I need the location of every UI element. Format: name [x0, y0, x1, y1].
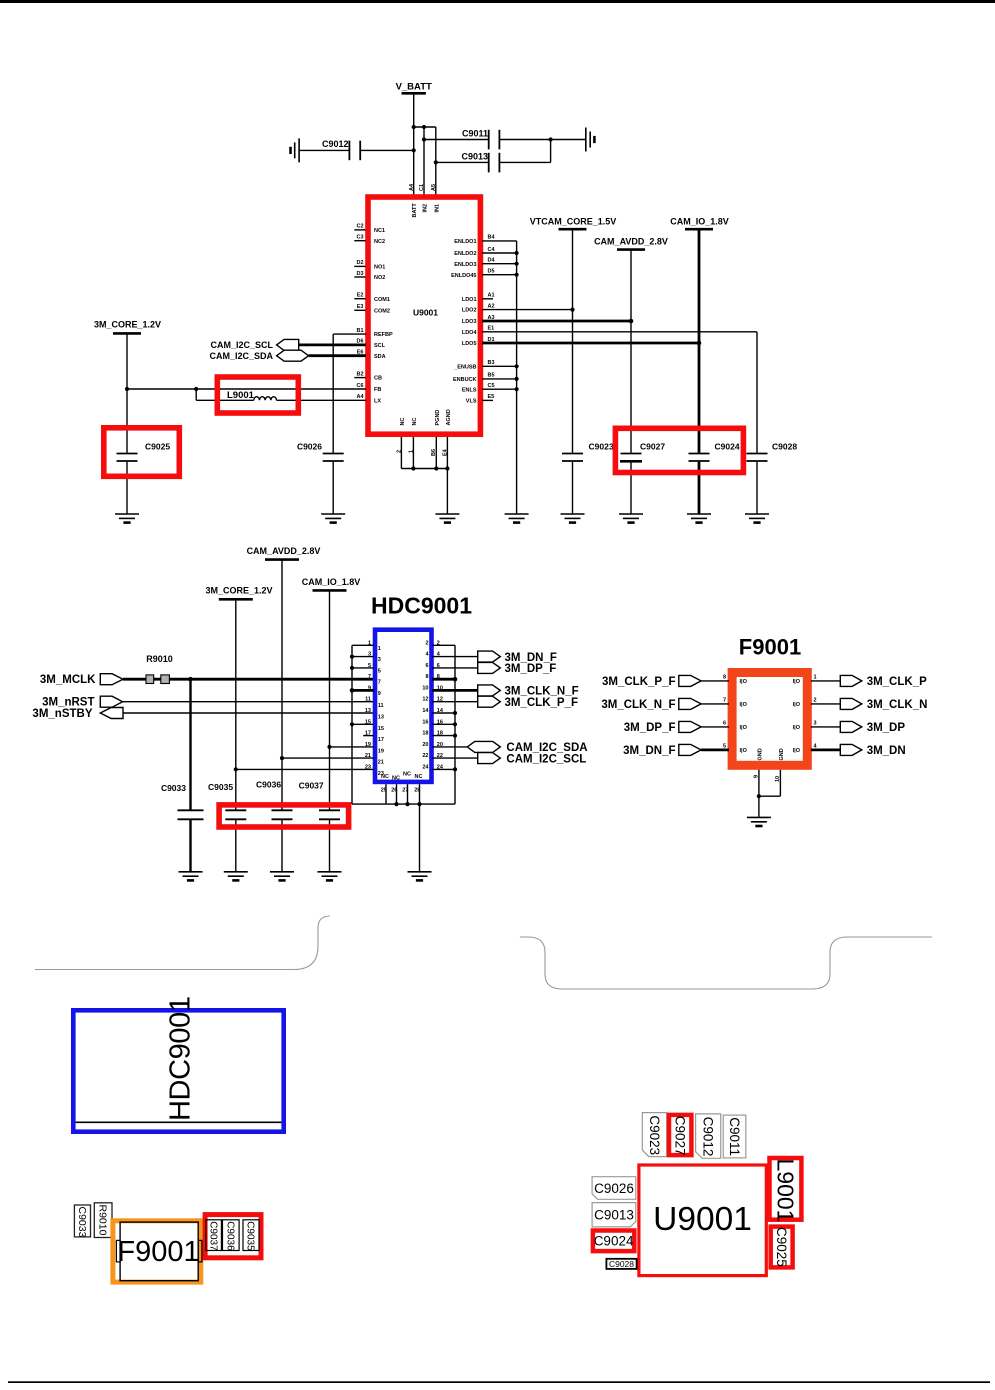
capacitor C9037 — [299, 780, 340, 872]
svg-text:C9033: C9033 — [161, 783, 186, 793]
svg-text:21: 21 — [365, 753, 371, 759]
node junction dots V_BATT area — [412, 125, 416, 129]
svg-text:PGND: PGND — [435, 410, 441, 426]
wire _ENUSB — [482, 365, 517, 367]
wire CAM_AVDD vertical — [281, 560, 283, 810]
svg-text:I|O: I|O — [793, 748, 801, 754]
svg-text:2: 2 — [437, 640, 440, 646]
svg-text:8: 8 — [437, 674, 440, 680]
bottom NC pin wires — [386, 784, 420, 872]
svg-text:3M_DP_F: 3M_DP_F — [505, 663, 557, 675]
svg-text:E2: E2 — [357, 293, 364, 299]
svg-text:HDC9001: HDC9001 — [371, 593, 472, 619]
svg-text:LDO5: LDO5 — [462, 341, 477, 347]
wire ENLDO1 to enable bus — [482, 240, 517, 242]
svg-text:CAM_AVDD_2.8V: CAM_AVDD_2.8V — [247, 546, 321, 556]
svg-text:NC: NC — [400, 418, 406, 426]
capacitor C9033 — [161, 679, 204, 872]
svg-text:C9024: C9024 — [594, 1234, 634, 1249]
svg-text:V_BATT: V_BATT — [396, 82, 432, 93]
svg-text:C1: C1 — [419, 184, 425, 191]
power flag CAM_IO_1.8V (middle) — [302, 577, 361, 590]
svg-text:NO1: NO1 — [374, 265, 385, 271]
svg-text:24: 24 — [422, 764, 429, 770]
svg-text:C6: C6 — [356, 383, 363, 389]
footprint label C9011 — [723, 1115, 746, 1158]
svg-text:C9027: C9027 — [640, 441, 665, 451]
footprint label C9012 — [696, 1114, 721, 1158]
left bus junction dots — [350, 655, 354, 659]
footprint U9001 (red box) — [639, 1165, 766, 1276]
svg-text:C9023: C9023 — [647, 1115, 662, 1155]
svg-text:ENLDO2: ENLDO2 — [454, 251, 476, 257]
svg-text:3M_CORE_1.2V: 3M_CORE_1.2V — [205, 586, 272, 596]
svg-text:L9001: L9001 — [227, 390, 255, 401]
svg-text:3M_CLK_P_F: 3M_CLK_P_F — [602, 676, 676, 688]
wire 3M_CORE down through FB node — [126, 333, 128, 452]
svg-text:CAM_I2C_SDA: CAM_I2C_SDA — [506, 742, 587, 754]
page top border line — [0, 0, 995, 3]
svg-text:NC: NC — [392, 776, 400, 782]
inductor L9001 — [196, 389, 366, 401]
svg-text:8: 8 — [425, 674, 428, 680]
F9001 left pin numbers 8 7 6 5 — [723, 675, 726, 750]
svg-text:9: 9 — [378, 691, 381, 697]
right pin wires HDC9001 — [432, 645, 478, 769]
svg-text:A2: A2 — [488, 303, 495, 309]
svg-text:3M_CLK_P_F: 3M_CLK_P_F — [505, 697, 579, 709]
svg-text:17: 17 — [365, 731, 371, 737]
svg-text:12: 12 — [422, 697, 428, 703]
power flag VTCAM_CORE_1.5V — [530, 216, 617, 229]
svg-text:10: 10 — [437, 685, 443, 691]
left pin numbers inside — [378, 646, 384, 777]
svg-text:C5: C5 — [488, 383, 495, 389]
footprint F9001 (orange box) — [113, 1221, 201, 1282]
svg-text:D5: D5 — [488, 269, 495, 275]
svg-text:1: 1 — [814, 675, 817, 681]
svg-text:3: 3 — [368, 652, 371, 658]
svg-text:I|O: I|O — [740, 702, 748, 708]
filter F9001 body (orange-red box) — [732, 673, 807, 766]
svg-text:L9001: L9001 — [773, 1159, 799, 1223]
footprint F9001 outline — [120, 1222, 198, 1281]
svg-text:C9036: C9036 — [224, 1221, 235, 1251]
svg-text:3M_CORE_1.2V: 3M_CORE_1.2V — [94, 319, 161, 329]
wire 3M_MCLK to pin 7 — [123, 678, 374, 681]
power flag CAM_AVDD_2.8V — [594, 237, 668, 250]
svg-text:21: 21 — [378, 760, 384, 766]
svg-text:7: 7 — [723, 698, 726, 704]
svg-text:ENLDO1: ENLDO1 — [454, 239, 476, 245]
footprint HDC9001 (blue box) — [73, 1010, 283, 1131]
right bus junction dots — [453, 677, 458, 682]
svg-text:23: 23 — [365, 764, 371, 770]
wire ENLS — [482, 388, 517, 390]
svg-text:NC: NC — [412, 418, 418, 426]
svg-text:14: 14 — [422, 708, 429, 714]
net port 3M_DN_F — [478, 651, 501, 662]
capacitor C9011 — [424, 129, 586, 150]
left pin wires HDC9001 — [236, 645, 374, 769]
svg-text:ENLS: ENLS — [462, 387, 477, 393]
svg-text:7: 7 — [378, 680, 381, 686]
right pin numbers inside — [422, 640, 429, 770]
svg-text:5: 5 — [378, 668, 381, 674]
svg-text:VLS: VLS — [466, 399, 477, 405]
svg-text:HDC9001: HDC9001 — [164, 996, 196, 1121]
svg-text:C4: C4 — [488, 247, 496, 253]
footprint highlight C9024 (red box) — [593, 1231, 634, 1252]
svg-text:17: 17 — [378, 737, 384, 743]
svg-text:15: 15 — [365, 719, 371, 725]
svg-text:6: 6 — [437, 663, 440, 669]
capacitor C9028 — [747, 332, 798, 514]
F9001 right pin names — [793, 679, 801, 754]
svg-text:C9028: C9028 — [772, 441, 797, 451]
svg-text:12: 12 — [437, 697, 443, 703]
capacitor C9012 — [299, 139, 414, 160]
ground under HDC9001 — [408, 872, 432, 881]
svg-text:20: 20 — [422, 742, 428, 748]
svg-text:C9013: C9013 — [594, 1208, 634, 1223]
footprint highlight box C9035 C9036 C9037 (red) — [205, 1215, 261, 1258]
ground under U9001 AGND — [435, 514, 459, 523]
svg-text:C9025: C9025 — [145, 441, 170, 451]
highlight box around C9025 — [104, 428, 180, 477]
footprint highlight C9027 (red box) — [669, 1115, 691, 1155]
svg-text:NC1: NC1 — [374, 228, 385, 234]
power flag 3M_CORE_1.2V (middle) — [205, 586, 272, 600]
svg-text:IN1: IN1 — [434, 204, 440, 213]
svg-text:B2: B2 — [356, 371, 363, 377]
svg-text:15: 15 — [378, 726, 384, 732]
svg-text:BATT: BATT — [412, 203, 418, 218]
svg-text:A5: A5 — [431, 184, 437, 191]
pin 10 thick wire — [432, 689, 478, 692]
wire IN1 pin A5 — [435, 127, 437, 195]
svg-text:C9028: C9028 — [609, 1259, 634, 1269]
svg-text:ENBUCK: ENBUCK — [453, 377, 477, 383]
svg-text:LDO3: LDO3 — [462, 319, 477, 325]
svg-text:CAM_I2C_SCL: CAM_I2C_SCL — [210, 340, 273, 350]
wire 3M_nSTBY to pin 13 — [123, 712, 374, 714]
svg-text:ENLDO3: ENLDO3 — [454, 262, 476, 268]
wire top bus y=127 — [414, 126, 436, 128]
capacitor C9027 — [620, 250, 665, 514]
svg-text:D4: D4 — [488, 258, 496, 264]
svg-text:3M_CLK_P: 3M_CLK_P — [867, 676, 927, 688]
bottom bus horizontal — [352, 803, 455, 805]
svg-text:3M_DP_F: 3M_DP_F — [624, 722, 676, 734]
net port 3M_DP_F — [478, 662, 501, 673]
svg-text:13: 13 — [378, 715, 384, 721]
footprint label C9037 — [206, 1220, 222, 1251]
svg-text:IN2: IN2 — [423, 204, 429, 213]
svg-text:3M_CLK_N_F: 3M_CLK_N_F — [505, 686, 579, 698]
footprint label R9010 — [94, 1203, 112, 1238]
wire REFBP to C9026 — [333, 333, 366, 335]
svg-text:SCL: SCL — [374, 343, 386, 349]
net port 3M_CLK_P — [811, 680, 841, 682]
resistor R9010 — [146, 654, 173, 684]
svg-text:3M_nRST: 3M_nRST — [42, 696, 94, 708]
svg-text:AGND: AGND — [446, 409, 452, 425]
ground under enable bus — [505, 514, 529, 523]
net port CAM_I2C_SDA (middle) — [467, 741, 500, 752]
svg-text:VTCAM_CORE_1.5V: VTCAM_CORE_1.5V — [530, 216, 617, 226]
wire 3M_CORE vertical — [235, 599, 237, 810]
left pin numbers U9001 — [356, 224, 364, 400]
svg-text:3M_CLK_N: 3M_CLK_N — [867, 699, 928, 711]
svg-text:7: 7 — [368, 674, 371, 680]
svg-text:LDO2: LDO2 — [462, 308, 477, 314]
svg-text:16: 16 — [437, 719, 443, 725]
power taps junction dots — [327, 745, 331, 749]
right bus vertical — [454, 645, 456, 804]
svg-text:5: 5 — [723, 744, 726, 750]
svg-text:C9037: C9037 — [207, 1221, 218, 1251]
svg-text:14: 14 — [437, 708, 444, 714]
svg-text:C9013: C9013 — [461, 151, 488, 161]
capacitor C9023 — [562, 229, 614, 514]
footprint HDC9001 inner line — [76, 1121, 282, 1123]
svg-text:U9001: U9001 — [653, 1201, 752, 1238]
highlight box around C9027 C9024 — [615, 428, 743, 472]
svg-text:E3: E3 — [357, 304, 364, 310]
pin 9 thick stub — [352, 689, 374, 692]
svg-text:U9001: U9001 — [413, 308, 438, 318]
footprint label C9033 — [74, 1205, 90, 1238]
footprint label C9026 — [592, 1177, 636, 1200]
svg-text:I|O: I|O — [793, 679, 801, 685]
svg-text:FB: FB — [374, 387, 381, 393]
svg-text:CAM_IO_1.8V: CAM_IO_1.8V — [302, 577, 361, 587]
svg-text:C9024: C9024 — [715, 441, 740, 451]
svg-text:6: 6 — [425, 663, 428, 669]
page bottom border line — [8, 1381, 990, 1383]
wire IN2 pin C1 — [423, 127, 425, 195]
svg-text:3M_DP: 3M_DP — [867, 722, 906, 734]
svg-text:B3: B3 — [488, 360, 495, 366]
capacitor C9024 — [689, 229, 740, 514]
svg-text:ENLDO45: ENLDO45 — [451, 273, 476, 279]
wire ENLDO45 — [482, 274, 517, 276]
svg-text:C9027: C9027 — [673, 1116, 688, 1156]
board outline curve right — [520, 937, 932, 989]
svg-text:NC: NC — [403, 772, 411, 778]
net port 3M_CLK_N_F — [478, 685, 501, 696]
svg-text:D2: D2 — [356, 260, 363, 266]
svg-text:11: 11 — [378, 703, 384, 709]
svg-text:3: 3 — [814, 721, 817, 727]
wire SDA — [309, 354, 366, 357]
svg-text:LDO4: LDO4 — [462, 330, 478, 336]
svg-text:NC: NC — [381, 774, 389, 780]
wire LDO5 to CAM_IO — [482, 342, 699, 345]
svg-text:24: 24 — [437, 764, 444, 770]
board outline curve left — [35, 916, 330, 970]
left pin numbers outside — [365, 640, 371, 770]
svg-text:18: 18 — [422, 731, 428, 737]
svg-text:E5: E5 — [488, 394, 495, 400]
svg-text:A4: A4 — [409, 183, 415, 191]
svg-text:GND: GND — [779, 748, 785, 760]
wire LDO2 to VTCAM — [482, 309, 573, 311]
svg-text:3M_MCLK: 3M_MCLK — [40, 674, 96, 686]
bottom NC pin names — [381, 772, 422, 782]
svg-text:5: 5 — [368, 663, 371, 669]
F9001 left pin names — [740, 679, 748, 754]
svg-text:CB: CB — [374, 376, 382, 382]
footprint label C9036 — [223, 1220, 240, 1251]
svg-text:LX: LX — [374, 398, 381, 404]
svg-text:13: 13 — [365, 708, 371, 714]
svg-text:NC2: NC2 — [374, 239, 385, 245]
svg-text:19: 19 — [365, 742, 371, 748]
svg-text:COM2: COM2 — [374, 308, 390, 314]
svg-text:CAM_I2C_SDA: CAM_I2C_SDA — [209, 351, 273, 361]
stub VLS — [482, 399, 493, 401]
ground under F9001 — [747, 817, 771, 826]
right pin names U9001 — [451, 239, 477, 405]
svg-text:CAM_IO_1.8V: CAM_IO_1.8V — [670, 216, 729, 226]
svg-text:I|O: I|O — [740, 679, 748, 685]
wire V_BATT to BATT pin A4 — [413, 93, 415, 194]
capacitor C9013 — [436, 137, 553, 172]
svg-text:COM1: COM1 — [374, 297, 390, 303]
wire FB — [127, 388, 366, 390]
svg-text:I|O: I|O — [740, 725, 748, 731]
svg-text:CAM_I2C_SCL: CAM_I2C_SCL — [506, 753, 586, 765]
enable bus vertical — [516, 241, 518, 514]
svg-text:16: 16 — [422, 719, 428, 725]
U9001 bottom pin wires — [401, 437, 447, 514]
svg-text:C9037: C9037 — [299, 780, 324, 790]
svg-text:F9001: F9001 — [117, 1236, 199, 1268]
svg-text:22: 22 — [437, 753, 443, 759]
svg-text:C9033: C9033 — [76, 1207, 88, 1238]
svg-text:10: 10 — [422, 685, 428, 691]
pin 8 thick stub — [432, 678, 455, 681]
wire ENLDO2 — [482, 252, 517, 254]
svg-text:C9026: C9026 — [594, 1181, 634, 1196]
svg-text:1: 1 — [378, 646, 381, 652]
right pin numbers outside — [437, 640, 444, 770]
svg-text:C9026: C9026 — [297, 441, 322, 451]
svg-text:D3: D3 — [356, 271, 363, 277]
svg-text:R9010: R9010 — [146, 654, 173, 664]
svg-text:8: 8 — [723, 675, 726, 681]
stub LDO1 — [482, 298, 493, 300]
wire 3M_nRST to pin 11 — [123, 701, 374, 703]
footprint label C9023 — [642, 1113, 666, 1157]
svg-text:NO2: NO2 — [374, 275, 385, 281]
svg-text:NC: NC — [415, 774, 423, 780]
ground left of C9012 — [291, 138, 300, 162]
svg-text:9: 9 — [368, 685, 371, 691]
svg-text:C9025: C9025 — [774, 1227, 789, 1267]
svg-text:B5: B5 — [488, 373, 495, 379]
svg-text:REFBP: REFBP — [374, 332, 393, 338]
footprint label C9035 — [243, 1220, 259, 1251]
svg-text:18: 18 — [437, 731, 443, 737]
power flag CAM_IO_1.8V — [670, 216, 729, 229]
ground under C9025 — [115, 514, 139, 523]
svg-text:3M_DN: 3M_DN — [867, 745, 906, 757]
svg-text:GND: GND — [757, 748, 763, 760]
svg-text:I|O: I|O — [793, 725, 801, 731]
svg-text:C9035: C9035 — [208, 782, 233, 792]
svg-text:1: 1 — [368, 640, 371, 646]
svg-text:A1: A1 — [488, 293, 495, 299]
IC HDC9001 chip body (blue box) — [375, 630, 432, 782]
svg-text:22: 22 — [422, 753, 428, 759]
net port 3M_CLK_N — [811, 703, 841, 705]
wire SCL — [299, 343, 366, 346]
highlight box around C9035 C9036 C9037 — [219, 805, 349, 827]
left bus vertical — [351, 645, 353, 804]
wire CAM_IO vertical — [329, 590, 331, 810]
wire ENBUCK — [482, 378, 517, 380]
net port CAM_I2C_SCL (middle) — [478, 753, 501, 764]
highlight box around L9001 — [217, 377, 298, 413]
footprint label C9013 — [592, 1203, 636, 1227]
svg-text:LDO1: LDO1 — [462, 297, 477, 303]
svg-text:C9023: C9023 — [589, 441, 614, 451]
svg-text:19: 19 — [378, 748, 384, 754]
svg-text:SDA: SDA — [374, 354, 386, 360]
svg-text:C2: C2 — [356, 224, 363, 230]
svg-text:6: 6 — [723, 721, 726, 727]
F9001 ground wires — [759, 770, 781, 818]
svg-text:R9010: R9010 — [97, 1205, 109, 1236]
capacitor C9036 — [256, 779, 293, 872]
footprint label C9028 — [606, 1259, 636, 1269]
wire LDO4 to C9028 — [482, 331, 757, 333]
svg-text:C9012: C9012 — [322, 139, 349, 149]
power flag 3M_CORE_1.2V — [94, 319, 161, 333]
svg-text:3M_nSTBY: 3M_nSTBY — [32, 708, 92, 720]
svg-text:11: 11 — [365, 697, 371, 703]
capacitor C9025 — [117, 441, 171, 514]
svg-text:A4: A4 — [356, 394, 364, 400]
op-amp U9001 chip body (red box) — [368, 197, 480, 434]
net port 3M_CLK_P_F — [478, 696, 501, 707]
footprint highlight C9025 (red box) — [771, 1227, 793, 1268]
svg-text:E1: E1 — [488, 326, 495, 332]
wire ENLDO3 — [482, 263, 517, 265]
capacitor C9035 — [208, 782, 246, 872]
svg-text:_ENUSB: _ENUSB — [453, 364, 476, 370]
svg-text:I|O: I|O — [740, 748, 748, 754]
svg-text:20: 20 — [437, 742, 443, 748]
svg-text:3M_DN_F: 3M_DN_F — [623, 745, 675, 757]
footprint highlight L9001 (red box) — [770, 1158, 802, 1220]
svg-text:3M_DN_F: 3M_DN_F — [505, 652, 557, 664]
power flag V_BATT — [396, 82, 432, 94]
F9001 right pin numbers 1 2 3 4 — [814, 675, 818, 750]
left pin stubs NC1 NC2 NO1 NO2 COM1 COM2 CB — [354, 230, 365, 378]
left pin names U9001 — [374, 228, 393, 404]
svg-text:C9035: C9035 — [245, 1221, 256, 1251]
svg-text:C9036: C9036 — [256, 779, 281, 789]
ground right of C9011 — [586, 128, 595, 152]
svg-text:2: 2 — [814, 698, 817, 704]
svg-text:C9011: C9011 — [727, 1117, 742, 1156]
ground under C9026 — [321, 514, 345, 523]
svg-text:2: 2 — [425, 640, 428, 646]
